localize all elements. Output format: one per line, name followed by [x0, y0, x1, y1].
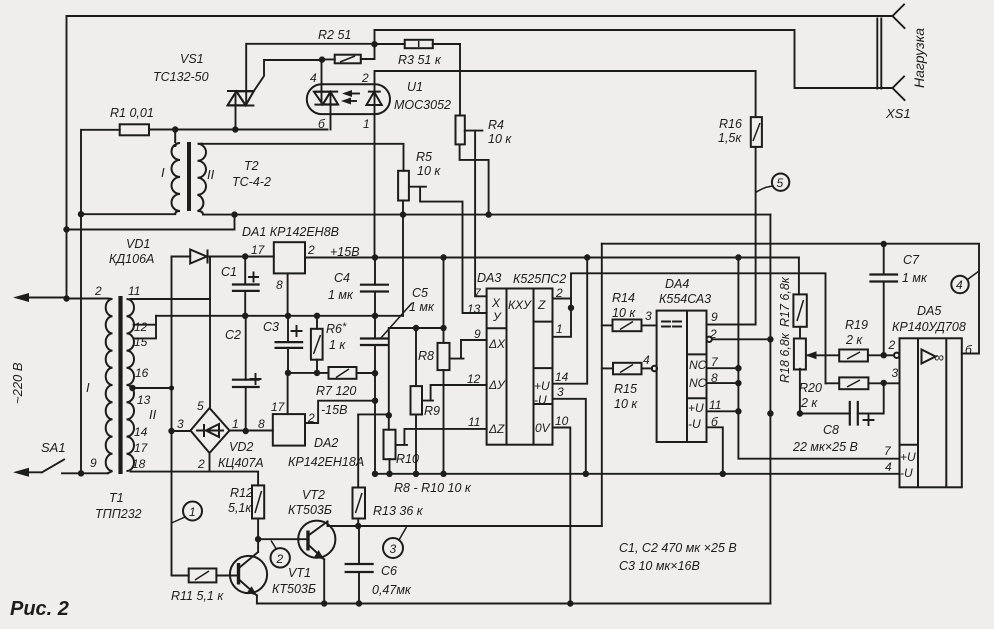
svg-text:1: 1 — [363, 117, 370, 131]
svg-text:II: II — [207, 167, 215, 182]
wire: DA3 pin 3 to -U bus — [553, 399, 586, 474]
capacitor C8 — [800, 383, 884, 414]
wire: DA4 pin 7 stub — [707, 367, 739, 369]
svg-text:8: 8 — [276, 278, 283, 292]
svg-text:С3 10 мк×16В: С3 10 мк×16В — [619, 559, 700, 573]
svg-text:0,47мк: 0,47мк — [372, 583, 412, 597]
svg-text:R19: R19 — [845, 318, 868, 332]
svg-text:2 к: 2 к — [800, 396, 818, 410]
svg-text:КР142ЕН18А: КР142ЕН18А — [288, 455, 364, 469]
svg-text:+U: +U — [688, 401, 704, 415]
node: C4/C5 on bus — [372, 313, 378, 319]
svg-text:КХУ: КХУ — [508, 298, 532, 312]
svg-text:X: X — [491, 296, 501, 310]
transformer T2 primary winding I — [172, 130, 181, 215]
wire: opto pin 6 to VS1/T2 line — [330, 92, 332, 130]
wire: DA4 pin 8 stub — [707, 382, 739, 384]
wire: T1 tap 11 to VD1 column — [131, 298, 211, 300]
wire: DA4 pin 6 to -U bus — [707, 427, 723, 474]
svg-text:15: 15 — [134, 335, 148, 349]
svg-text:17: 17 — [271, 400, 286, 414]
svg-text:R16: R16 — [719, 117, 742, 131]
resistor R3 — [405, 40, 433, 48]
transformer T2 core — [187, 142, 191, 211]
svg-text:R7 120: R7 120 — [316, 384, 356, 398]
wire: T1 primary top lead — [67, 298, 109, 300]
svg-text:R13 36 к: R13 36 к — [373, 504, 424, 518]
resistor R1 — [120, 124, 149, 135]
leader: node 3 — [399, 527, 407, 540]
svg-text:2: 2 — [307, 411, 315, 425]
node: R18 bottom / C8 line — [797, 410, 803, 416]
wire: R5 bottom to ground line and 0V bus riser — [402, 201, 404, 316]
svg-text:C1, C2 470 мк ×25 В: C1, C2 470 мк ×25 В — [619, 541, 737, 555]
capacitor C4 — [374, 258, 376, 316]
svg-text:0V: 0V — [535, 421, 551, 435]
node: R10 column / R13 line — [386, 412, 392, 418]
comparator DA4 box — [657, 311, 707, 442]
node: taps 16/13 common — [129, 385, 135, 391]
svg-text:9: 9 — [474, 327, 481, 341]
node 4 circle — [951, 276, 968, 293]
transformer T2 secondary winding II — [198, 144, 207, 215]
svg-text:VT2: VT2 — [302, 488, 325, 502]
svg-text:2: 2 — [555, 286, 563, 300]
svg-text:DA4: DA4 — [665, 277, 689, 291]
wire: T1 tap 11 riser to VD1 cathode / bridge pin 5 column — [209, 257, 211, 300]
node: riser on +15 rail — [440, 254, 446, 260]
svg-text:12: 12 — [467, 372, 481, 386]
node 2 circle — [271, 548, 290, 567]
svg-text:2: 2 — [361, 71, 369, 85]
svg-text:2: 2 — [197, 457, 205, 471]
svg-text:I: I — [86, 380, 90, 395]
resistor R16 — [751, 117, 762, 147]
node: -15V rail junction — [372, 398, 378, 404]
svg-text:1 мк: 1 мк — [409, 300, 435, 314]
svg-text:5: 5 — [197, 399, 204, 413]
svg-text:ΔZ: ΔZ — [488, 422, 505, 436]
svg-text:4: 4 — [956, 278, 963, 292]
svg-text:13: 13 — [467, 302, 481, 316]
node: bridge AC column junction — [169, 385, 174, 390]
svg-text:ТС-4-2: ТС-4-2 — [232, 175, 271, 189]
svg-text:3: 3 — [892, 366, 899, 380]
svg-text:У: У — [492, 310, 502, 324]
wire: opto pin 2 up and line to R16 — [375, 71, 756, 92]
svg-text:VD1: VD1 — [126, 237, 150, 251]
svg-text:DA5: DA5 — [917, 304, 941, 318]
node: feed line/R8 top — [440, 325, 446, 331]
op-amp DA5 box — [900, 338, 962, 487]
resistor R20 — [826, 382, 840, 384]
svg-text:С4: С4 — [334, 271, 350, 285]
wire: T2 secondary bottom to ground sense line — [203, 214, 770, 216]
wire: T1 taps 12+15 to 0V bus — [134, 316, 157, 339]
svg-text:ΔУ: ΔУ — [488, 378, 506, 392]
node: R4 bottom on ground line — [485, 211, 491, 217]
svg-text:R1 0,01: R1 0,01 — [110, 106, 154, 120]
node: return conductor on SA1 line — [78, 470, 84, 476]
resistor R19 — [839, 350, 868, 362]
node: R6 top on bus — [314, 313, 320, 319]
svg-text:4: 4 — [310, 71, 317, 85]
svg-text:КР140УД708: КР140УД708 — [892, 320, 966, 334]
wire: common sense column (T2 line to bottom rail) — [769, 215, 771, 604]
svg-text:~220 В: ~220 В — [10, 362, 25, 404]
svg-text:16: 16 — [135, 366, 149, 380]
voltage regulator DA1 box — [274, 242, 305, 273]
wire: 0V bus — [156, 315, 403, 317]
switch SA1 — [20, 460, 64, 473]
leader: C5 label to capacitor — [380, 303, 412, 339]
node: VS1 anode on T2 line — [232, 126, 238, 132]
svg-text:DA3: DA3 — [477, 271, 501, 285]
wire: vertical from y30 line down to R2/R3 junction — [374, 30, 376, 44]
wire: T1 primary bottom / SA1 line — [62, 472, 108, 474]
svg-text:ΔX: ΔX — [488, 337, 506, 351]
svg-text:ТС132-50: ТС132-50 — [153, 70, 209, 84]
svg-text:R18 6,8к: R18 6,8к — [778, 332, 792, 383]
wire: -U bus — [375, 473, 900, 475]
node: R1/T2 primary top — [172, 126, 178, 132]
svg-text:ТПП232: ТПП232 — [95, 507, 142, 521]
wire: opto pin 4 — [321, 60, 323, 105]
svg-text:R17 6,8к: R17 6,8к — [778, 276, 792, 327]
svg-text:1 мк: 1 мк — [328, 288, 354, 302]
voltage regulator DA2 box — [273, 414, 305, 446]
node: R8 bottom on -U bus — [440, 471, 446, 477]
wire: bridge pin 1 to C2/DA2 — [230, 430, 273, 432]
node: R1 loop corner — [78, 211, 84, 217]
wire: bridge pin 2 / tap 18 to R12 — [210, 453, 259, 485]
svg-text:С8: С8 — [823, 423, 839, 437]
node: R7 right on -15V column — [372, 370, 378, 376]
svg-text:R11 5,1 к: R11 5,1 к — [171, 589, 224, 603]
svg-text:1,5к: 1,5к — [718, 131, 742, 145]
opto U1 light arrows — [346, 93, 359, 95]
junction: frame/arrow/T1 primary top — [63, 295, 69, 301]
svg-text:Z: Z — [537, 298, 546, 312]
svg-text:2: 2 — [307, 243, 315, 257]
svg-text:9: 9 — [90, 456, 97, 470]
node: R5 bottom on ground line — [400, 211, 406, 217]
resistor R5 — [398, 171, 409, 201]
wire: DA3 pin 2 stub and riser — [553, 299, 572, 337]
leader: node 4 — [968, 271, 980, 280]
svg-text:К554СА3: К554СА3 — [659, 292, 711, 306]
resistor R9 — [415, 328, 417, 386]
svg-text:R2 51: R2 51 — [318, 28, 351, 42]
resistor R12 — [252, 485, 264, 518]
svg-text:R14: R14 — [612, 291, 635, 305]
node: C2 bottom — [243, 428, 249, 434]
svg-text:R8: R8 — [418, 349, 434, 363]
wire: VS1 bottom terminal down to T2 line — [235, 91, 237, 130]
node: DA3 pin10 on rail — [567, 600, 573, 606]
wire: VS1 top terminal to R2/R3 junction — [246, 44, 374, 106]
wire: DA1 pin 8 to 0V bus — [287, 273, 289, 315]
node: C1 bottom on bus — [242, 313, 248, 319]
svg-text:1: 1 — [232, 417, 239, 431]
node: y229.5 on frame — [63, 226, 69, 232]
svg-text:Нагрузка: Нагрузка — [911, 28, 927, 88]
node 1 circle — [183, 502, 202, 521]
svg-text:18: 18 — [132, 457, 146, 471]
svg-text:-U: -U — [688, 417, 701, 431]
svg-text:2: 2 — [276, 552, 284, 566]
node: C6 bottom on rail — [356, 600, 362, 606]
svg-text:-15В: -15В — [321, 403, 347, 417]
svg-text:+U: +U — [534, 379, 550, 393]
node: C3 bottom / DA2 pin17 — [285, 370, 291, 376]
svg-text:3: 3 — [645, 309, 652, 323]
svg-text:КТ503Б: КТ503Б — [272, 582, 316, 596]
wire: DA2 pin 2 to -15V rail — [305, 401, 375, 423]
svg-text:5,1к: 5,1к — [228, 501, 252, 515]
node: VT1 collector / R12 / VT2 base — [255, 536, 261, 542]
node: DA1 pin8/C3 on bus — [285, 313, 291, 319]
svg-text:8: 8 — [258, 417, 265, 431]
arrow: ~220V upper input — [20, 297, 67, 299]
svg-text:R15: R15 — [614, 382, 637, 396]
wire: VT2 base wire — [258, 538, 308, 540]
svg-text:R12: R12 — [230, 486, 253, 500]
connector XS1 pin 1 prongs — [893, 5, 905, 29]
svg-text:8: 8 — [711, 371, 718, 385]
svg-text:R3 51 к: R3 51 к — [398, 53, 442, 67]
svg-text:VT1: VT1 — [288, 566, 311, 580]
resistor R7 — [288, 372, 375, 374]
wire: bridge pin 5 lead from tap-11 column — [209, 299, 211, 408]
capacitor C3 — [287, 316, 289, 373]
node 5 circle — [772, 174, 789, 191]
svg-text:11: 11 — [468, 415, 480, 429]
svg-text:1 к: 1 к — [329, 338, 346, 352]
op-amp triangle symbol — [922, 350, 936, 364]
pin 2 bubble of DA5 — [894, 353, 899, 358]
svg-text:17: 17 — [251, 243, 266, 257]
svg-text:R5: R5 — [416, 150, 432, 164]
resistor R15 — [602, 367, 613, 369]
capacitor C1 — [244, 257, 246, 316]
transformer T1 secondary winding II — [127, 299, 135, 471]
node: C8 line on common column — [767, 410, 773, 416]
svg-text:VD2: VD2 — [229, 440, 253, 454]
transformer T1 core — [118, 296, 122, 474]
resistor R13 — [357, 414, 359, 487]
svg-text:4: 4 — [643, 353, 650, 367]
svg-text:R20: R20 — [799, 381, 822, 395]
svg-text:R4: R4 — [488, 118, 504, 132]
connector XS1 double bars — [876, 19, 878, 89]
wire: DA2 pin 17 riser — [287, 373, 289, 414]
node: C7 bottom on pin2 line — [881, 352, 887, 358]
transformer T1 primary winding I — [106, 299, 113, 474]
node: C1 top / DA1 in — [242, 253, 248, 259]
wire: -15V column down to -U bus — [374, 373, 376, 474]
svg-text:XS1: XS1 — [885, 106, 911, 121]
resistor R6 — [316, 316, 318, 373]
node: R2/R3 junction — [371, 41, 377, 47]
resistor R2 — [335, 55, 361, 64]
svg-text:+U: +U — [900, 450, 916, 464]
wire: R4 wiper to DA3 pin 7 — [465, 131, 487, 297]
wire: VS1 gate to R2 left node — [254, 60, 322, 91]
wire: R16 bottom down to DA4 pin 9 — [707, 147, 756, 325]
resistor R11 — [189, 569, 217, 583]
svg-text:13: 13 — [137, 393, 151, 407]
svg-text:1: 1 — [556, 322, 563, 336]
opto-coupler U1 body — [307, 84, 390, 114]
resistor R8 — [438, 343, 450, 370]
svg-text:С1: С1 — [221, 265, 237, 279]
wire: DA3 pin 10 to bottom rail — [553, 428, 571, 604]
svg-text:SA1: SA1 — [41, 440, 66, 455]
svg-text:5: 5 — [777, 176, 784, 190]
symbol == inside DA4 — [662, 322, 681, 327]
svg-text:КТ503Б: КТ503Б — [288, 503, 332, 517]
svg-text:Т2: Т2 — [244, 159, 259, 173]
node: R9 bottom on -U bus — [413, 471, 419, 477]
opto U1 photo-triac — [314, 92, 338, 105]
node: gate/R2/opto pin4 junction — [319, 56, 325, 62]
leader: node 2 — [271, 541, 276, 549]
svg-text:10 к: 10 к — [612, 306, 636, 320]
svg-text:КД106А: КД106А — [109, 252, 154, 266]
wire: R1 right lead on T2 top line — [149, 129, 328, 131]
wire: DA4 pin 9 to R16 — [707, 324, 755, 326]
wire: taps 16/13 to bridge column — [133, 387, 172, 389]
svg-text:10 к: 10 к — [417, 164, 441, 178]
wire: R17/R18 link — [799, 327, 801, 339]
svg-text:14: 14 — [134, 425, 148, 439]
opto U1 LED — [367, 92, 382, 105]
node: -U bus left end — [372, 471, 378, 477]
svg-text:I: I — [161, 165, 165, 180]
svg-text:DA1 КР142ЕН8В: DA1 КР142ЕН8В — [242, 225, 339, 239]
svg-text:Т1: Т1 — [109, 491, 124, 505]
svg-text:11: 11 — [709, 398, 721, 412]
svg-text:VS1: VS1 — [180, 52, 204, 66]
wire: R16 top lead — [755, 71, 757, 117]
svg-text:С2: С2 — [225, 328, 241, 342]
node: pin2 column dot — [568, 305, 574, 311]
node 3 circle — [383, 538, 403, 558]
capacitor C2 — [245, 316, 247, 431]
wire: +15 feed to DA4 pins 7,8,11 and DA5 pin 7 — [738, 258, 899, 459]
svg-text:1: 1 — [189, 505, 196, 519]
wire: T2 primary bottom loop back to R1 — [81, 213, 175, 215]
resistor R10 — [388, 328, 390, 430]
wire: left frame vertical (phase) — [66, 16, 68, 299]
wire: VT2 collector line to DA5-output column — [328, 525, 602, 527]
svg-text:С7: С7 — [903, 253, 920, 267]
svg-text:2 к: 2 к — [845, 333, 863, 347]
svg-text:14: 14 — [555, 370, 569, 384]
node: opto pin1/C4 on +15 rail — [372, 254, 378, 260]
leader: node 1 — [172, 517, 186, 523]
wire: tap 18 to bridge pin 2 — [131, 471, 210, 473]
wire: R8-R10 top feed line — [389, 327, 444, 329]
svg-text:КЦ407А: КЦ407А — [218, 456, 264, 470]
svg-text:-U: -U — [900, 466, 913, 480]
svg-text:II: II — [149, 407, 157, 422]
svg-text:NC: NC — [689, 358, 707, 372]
resistor R18 (trimmer) — [794, 339, 806, 370]
node: DA3 pin3 on -U bus — [583, 471, 589, 477]
svg-text:3: 3 — [390, 542, 397, 556]
wire: R17 top from +15 rail — [798, 258, 800, 295]
svg-text:4: 4 — [885, 460, 892, 474]
svg-text:Рис. 2: Рис. 2 — [10, 598, 69, 620]
multiplier DA3 box — [487, 289, 553, 445]
diode VD1 — [172, 256, 191, 258]
svg-text:R9: R9 — [424, 404, 440, 418]
thyristor VS1 symbol (triac) — [227, 91, 255, 106]
svg-text:С3: С3 — [263, 320, 279, 334]
transistor VT1 — [230, 556, 267, 593]
wire: +15V rail — [305, 257, 799, 259]
svg-text:2: 2 — [94, 284, 102, 298]
node: secondary bottom jog junction — [231, 211, 237, 217]
svg-text:-U: -U — [534, 393, 547, 407]
svg-text:∞: ∞ — [934, 349, 944, 365]
wire: DA4 pin 11 stub — [707, 410, 739, 412]
wire: R1 left lead and long return conductor down to SA1 line — [81, 130, 120, 474]
pin 4 bubble of DA4 — [652, 366, 657, 371]
svg-text:3: 3 — [557, 385, 564, 399]
svg-text:3: 3 — [177, 417, 184, 431]
wire: DA3 pin 14 to +15 rail — [553, 258, 588, 384]
svg-text:U1: U1 — [407, 80, 423, 94]
pin 2 bubble and wire to common column — [707, 337, 712, 342]
connector XS1 pin 2 prongs — [893, 77, 905, 101]
svg-text:1 мк: 1 мк — [902, 271, 928, 285]
wire: R4 bottom jog to ground line — [460, 144, 489, 214]
svg-text:2: 2 — [888, 338, 896, 352]
node: R20/C8 to DA5 pin 3 — [881, 380, 887, 386]
svg-text:17: 17 — [134, 441, 149, 455]
node: R6 bottom / R7 left — [314, 370, 320, 376]
wire: feedback top line to DA5 output — [602, 244, 979, 354]
svg-text:NC: NC — [689, 376, 707, 390]
svg-text:С6: С6 — [381, 564, 397, 578]
node: R9 top — [413, 325, 419, 331]
wire: DA3 output to R20 riser — [571, 273, 826, 383]
resistor R17 — [793, 294, 806, 326]
svg-text:22 мк×25 В: 22 мк×25 В — [792, 440, 858, 454]
svg-text:10 к: 10 к — [488, 132, 512, 146]
svg-text:С5: С5 — [412, 286, 428, 300]
resistor R14 — [602, 324, 613, 326]
node: VT2 emitter on rail — [321, 600, 327, 606]
wire: leader of node 5 — [756, 186, 773, 193]
svg-text:R8 - R10 10 к: R8 - R10 10 к — [394, 481, 472, 495]
svg-text:12: 12 — [134, 320, 148, 334]
node: R13/C6 top — [355, 523, 361, 529]
wire: +15 riser to R8 chain — [443, 258, 445, 343]
svg-text:R10: R10 — [396, 452, 419, 466]
svg-text:К525ПС2: К525ПС2 — [513, 272, 566, 286]
wire: jog down to mains-phase line y229.5 — [67, 215, 235, 230]
wire: top mains line from left frame to load connector — [67, 15, 894, 17]
svg-text:10 к: 10 к — [614, 397, 638, 411]
wire: bridge pin 3 lead — [172, 430, 191, 432]
transistor VT2 — [298, 521, 335, 558]
bridge rectifier VD2 — [191, 408, 230, 453]
node: bridge pin 3 — [168, 428, 174, 434]
